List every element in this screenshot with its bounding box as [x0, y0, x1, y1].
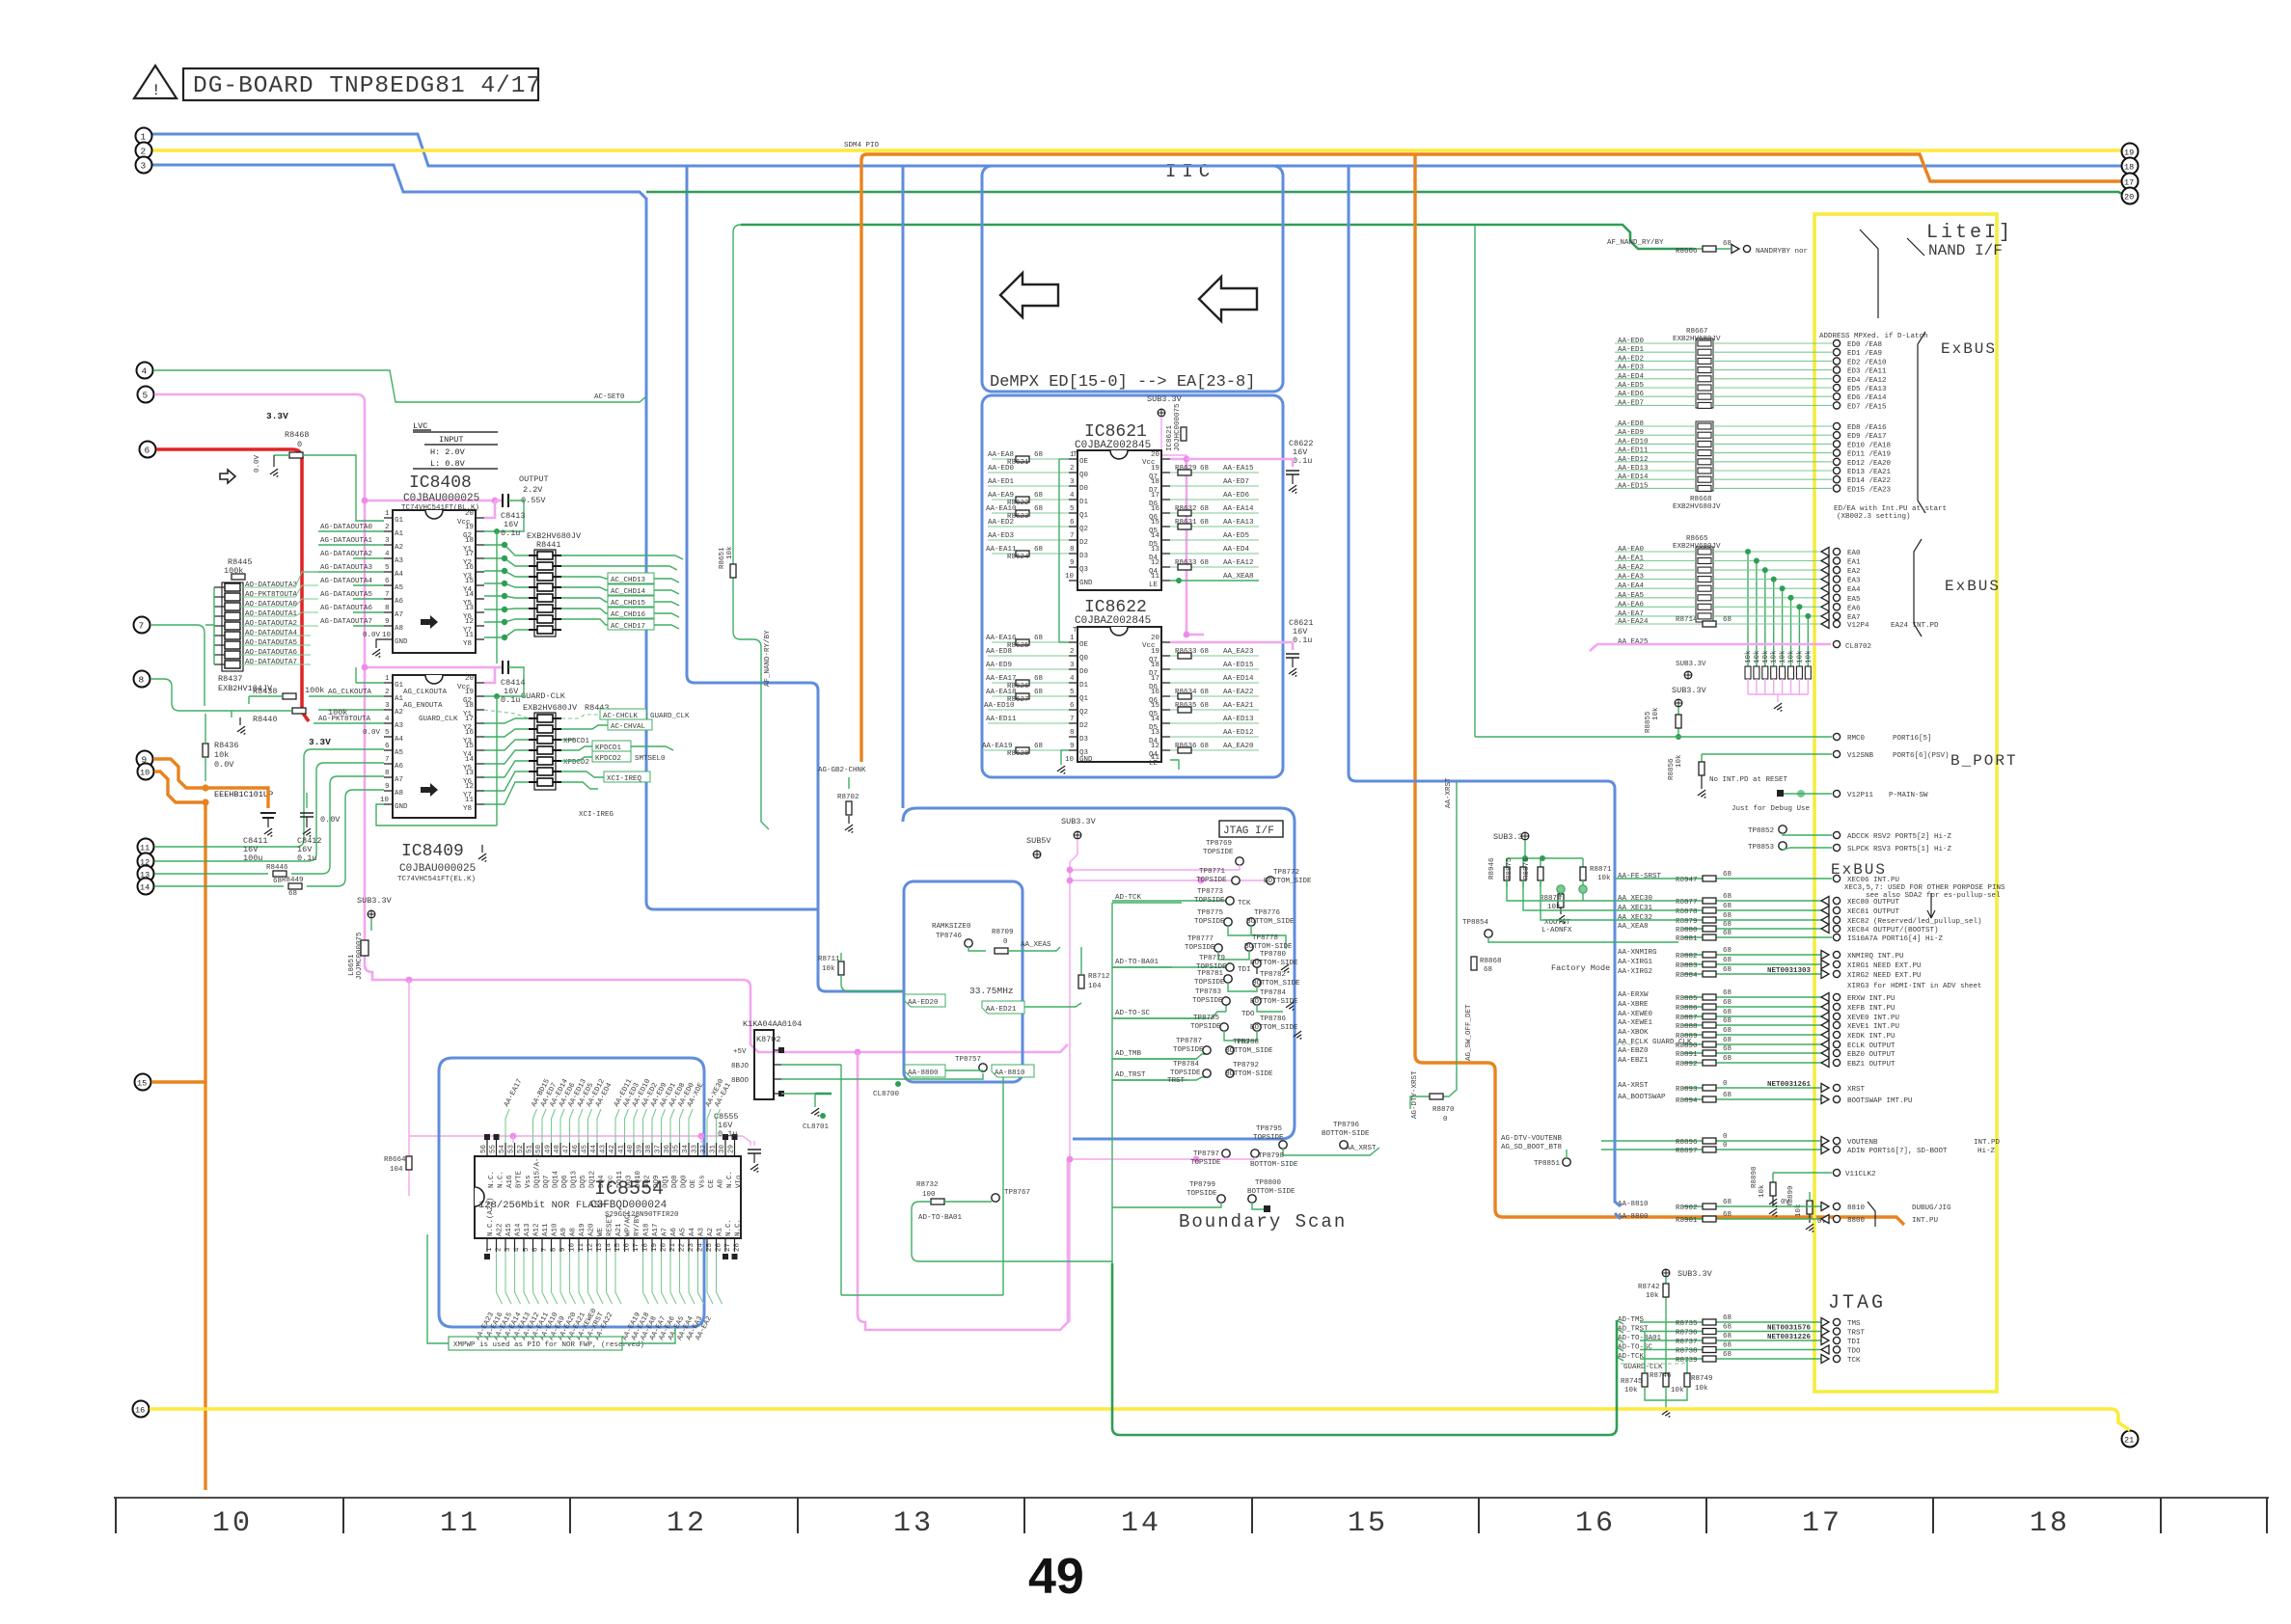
svg-text:LVC: LVC	[413, 421, 427, 431]
svg-text:TDO: TDO	[1847, 1348, 1861, 1356]
svg-text:ECLK OUTPUT: ECLK OUTPUT	[1847, 1042, 1896, 1050]
svg-text:AC-SET0: AC-SET0	[594, 393, 625, 401]
svg-text:GUARD_CLK: GUARD_CLK	[419, 716, 458, 723]
resistor R8855	[1676, 715, 1681, 728]
svg-text:R8746: R8746	[1650, 1372, 1672, 1380]
svg-text:XRST: XRST	[1847, 1086, 1866, 1094]
svg-text:AA-ED10: AA-ED10	[1618, 438, 1649, 446]
svg-text:P-MAIN-SW: P-MAIN-SW	[1889, 792, 1928, 799]
svg-text:3.3V: 3.3V	[309, 737, 331, 747]
svg-text:4: 4	[1070, 675, 1075, 683]
IC8409 body TC74VHC541FT	[393, 675, 476, 818]
IC8621 right wires/labels	[1170, 459, 1204, 635]
IC8408 body TC74VHC541FT	[393, 510, 476, 653]
svg-text:XEC81 OUTPUT: XEC81 OUTPUT	[1847, 908, 1900, 916]
svg-text:R8884: R8884	[1676, 972, 1698, 980]
svg-text:AA-EA0: AA-EA0	[1618, 546, 1645, 554]
svg-text:TOPSIDE: TOPSIDE	[1185, 944, 1215, 952]
svg-text:1: 1	[486, 1247, 494, 1252]
svg-text:DQ8: DQ8	[671, 1175, 679, 1188]
svg-text:NET0031226: NET0031226	[1767, 1334, 1812, 1341]
svg-text:14: 14	[1121, 1507, 1161, 1540]
svg-text:R8880: R8880	[1676, 927, 1698, 934]
svg-text:68: 68	[1723, 1037, 1732, 1044]
svg-text:R8440: R8440	[253, 715, 278, 724]
svg-text:AA-XIRG1: AA-XIRG1	[1618, 959, 1653, 966]
left side labels and wires	[356, 667, 384, 683]
svg-text:68: 68	[1723, 240, 1732, 248]
svg-text:16: 16	[1151, 505, 1160, 513]
bottom wires + ruler + page number	[114, 1263, 2269, 1605]
wire red (net 6)	[156, 449, 309, 721]
svg-text:68: 68	[1200, 519, 1209, 527]
svg-text:TRST: TRST	[1167, 1077, 1186, 1085]
svg-text:0.1u: 0.1u	[718, 1129, 737, 1139]
svg-text:68: 68	[1034, 451, 1043, 459]
svg-text:TP8784: TP8784	[1260, 989, 1287, 997]
note XMPWP reserved	[449, 1337, 622, 1350]
NOR flash block	[384, 1019, 983, 1350]
svg-text:AA-ED5: AA-ED5	[1618, 382, 1645, 390]
wire net 9 (orange)	[153, 759, 220, 788]
svg-text:JOJMC000075: JOJMC000075	[356, 932, 364, 980]
svg-text:4: 4	[142, 366, 148, 377]
svg-text:BOTTOM-SIDE: BOTTOM-SIDE	[1322, 1130, 1370, 1138]
svg-text:68: 68	[1723, 1351, 1732, 1359]
svg-text:6: 6	[385, 743, 390, 750]
svg-text:AQ-DATAOUTA4: AQ-DATAOUTA4	[245, 630, 298, 637]
svg-text:TP8775: TP8775	[1197, 909, 1224, 917]
svg-text:EXB2HV680JV: EXB2HV680JV	[1673, 503, 1721, 511]
svg-text:BOTTOM_SIDE: BOTTOM_SIDE	[1252, 980, 1300, 988]
svg-text:A5: A5	[395, 584, 404, 592]
svg-text:3: 3	[141, 161, 147, 172]
svg-text:AA-ED21: AA-ED21	[986, 1006, 1017, 1014]
svg-text:2.2V: 2.2V	[523, 485, 543, 495]
svg-text:N.C.: N.C.	[725, 1219, 733, 1236]
svg-text:A19: A19	[579, 1223, 586, 1236]
svg-text:AA-ED7: AA-ED7	[1618, 399, 1644, 407]
svg-text:68: 68	[1723, 1314, 1732, 1322]
svg-text:18: 18	[465, 537, 474, 545]
svg-text:AD_TRST: AD_TRST	[1115, 1071, 1146, 1079]
svg-text:AA-ED12: AA-ED12	[1618, 456, 1649, 464]
svg-text:20: 20	[465, 510, 475, 518]
svg-text:TP8787: TP8787	[1176, 1038, 1202, 1045]
svg-text:XIRG3 for HDMI-INT in ADV shee: XIRG3 for HDMI-INT in ADV sheet	[1847, 983, 1982, 990]
svg-text:1: 1	[1070, 451, 1075, 459]
svg-text:0: 0	[1723, 1142, 1728, 1150]
svg-text:ED10 /EA18: ED10 /EA18	[1847, 442, 1891, 449]
svg-text:68: 68	[1723, 1199, 1732, 1206]
svg-text:A6: A6	[395, 763, 404, 771]
pin stubs right	[476, 518, 484, 639]
svg-text:8: 8	[385, 770, 390, 777]
svg-text:XEVE1 INT.PU: XEVE1 INT.PU	[1847, 1023, 1899, 1031]
svg-text:3.3V: 3.3V	[266, 411, 288, 421]
svg-text:AA-EA11: AA-EA11	[986, 546, 1017, 554]
svg-text:Just for Debug Use: Just for Debug Use	[1732, 805, 1810, 813]
svg-text:BYTE: BYTE	[516, 1170, 524, 1188]
svg-text:3: 3	[385, 537, 390, 545]
svg-text:AF_NAND-RY/BY: AF_NAND-RY/BY	[764, 630, 772, 687]
svg-text:Q1: Q1	[1079, 695, 1089, 703]
svg-text:51: 51	[527, 1144, 534, 1153]
svg-text:RY/BY: RY/BY	[634, 1214, 641, 1236]
svg-text:TP8776: TP8776	[1254, 909, 1281, 917]
svg-text:TP8853: TP8853	[1748, 844, 1775, 852]
svg-text:AA-ED6: AA-ED6	[1618, 391, 1645, 398]
svg-text:AA_XEAS: AA_XEAS	[1021, 941, 1051, 949]
svg-text:16: 16	[1151, 689, 1160, 696]
svg-text:35: 35	[673, 1144, 681, 1153]
svg-text:R8899: R8899	[1787, 1185, 1795, 1207]
svg-text:AA-ED11: AA-ED11	[986, 716, 1017, 723]
svg-text:AG_SD_BOOT_BT8: AG_SD_BOOT_BT8	[1501, 1144, 1562, 1151]
svg-text:10k: 10k	[1597, 875, 1611, 882]
svg-text:A8: A8	[395, 625, 403, 633]
svg-text:TP8788: TP8788	[1233, 1039, 1259, 1046]
svg-text:AA-ED7: AA-ED7	[1223, 478, 1249, 486]
svg-text:AG-DATAOUTA2: AG-DATAOUTA2	[320, 551, 372, 558]
svg-text:IC8621: IC8621	[1084, 422, 1147, 442]
svg-text:AD-TO-SC: AD-TO-SC	[1115, 1010, 1151, 1017]
svg-text:TP8773: TP8773	[1197, 888, 1224, 896]
svg-text:EA5: EA5	[1847, 596, 1861, 604]
svg-text:11: 11	[465, 797, 475, 804]
svg-text:R8742: R8742	[1638, 1284, 1660, 1291]
svg-text:C0JBAU000025: C0JBAU000025	[399, 863, 476, 875]
green TCK bus	[1112, 903, 1204, 1263]
svg-text:R8712: R8712	[1088, 973, 1110, 981]
svg-text:A6: A6	[670, 1227, 678, 1236]
svg-text:A4: A4	[395, 736, 404, 744]
svg-text:Vss: Vss	[525, 1175, 532, 1188]
resistor R8436	[203, 744, 208, 757]
svg-text:9: 9	[1070, 559, 1075, 567]
svg-text:AA-ED3: AA-ED3	[1618, 365, 1645, 372]
svg-text:R8888: R8888	[1676, 1023, 1698, 1031]
svg-text:7: 7	[385, 756, 390, 764]
svg-text:BOTTOM-SIDE: BOTTOM-SIDE	[1250, 960, 1298, 967]
svg-text:54: 54	[499, 1144, 506, 1153]
svg-text:XEC80 OUTPUT: XEC80 OUTPUT	[1847, 899, 1900, 907]
svg-text:22: 22	[679, 1243, 687, 1252]
svg-text:TP8800: TP8800	[1255, 1179, 1282, 1187]
svg-text:68: 68	[1034, 689, 1043, 696]
svg-text:17: 17	[465, 551, 474, 558]
svg-text:EA0: EA0	[1847, 550, 1861, 557]
svg-text:53: 53	[508, 1144, 516, 1153]
svg-text:0.0V: 0.0V	[363, 632, 381, 639]
arrow inside	[421, 615, 438, 629]
svg-text:11: 11	[1151, 573, 1160, 581]
svg-text:49: 49	[545, 1145, 553, 1153]
svg-text:A9: A9	[560, 1228, 568, 1236]
svg-text:OE: OE	[1079, 458, 1089, 466]
svg-text:15: 15	[1348, 1507, 1388, 1540]
svg-text:R8664: R8664	[384, 1156, 406, 1164]
capacitor C8414	[495, 666, 502, 669]
svg-text:128/256Mbit NOR FLASH: 128/256Mbit NOR FLASH	[478, 1200, 606, 1211]
svg-text:AG_ENOUTA: AG_ENOUTA	[403, 702, 443, 710]
svg-text:Q0: Q0	[1079, 655, 1089, 663]
svg-text:R8668: R8668	[1690, 496, 1712, 503]
svg-text:GUARD-CLK: GUARD-CLK	[521, 691, 566, 701]
svg-text:AA-ERXW: AA-ERXW	[1618, 991, 1649, 999]
svg-text:AA-ED13: AA-ED13	[1618, 465, 1649, 473]
svg-text:Vss: Vss	[699, 1175, 707, 1188]
svg-text:R8890: R8890	[1676, 1042, 1698, 1050]
svg-text:TOPSIDE: TOPSIDE	[1173, 1046, 1204, 1054]
svg-text:27: 27	[724, 1243, 732, 1252]
svg-text:11: 11	[465, 632, 475, 639]
wire net 7	[150, 625, 205, 706]
svg-text:A2: A2	[395, 709, 403, 717]
LVC table	[413, 430, 498, 469]
svg-text:R8667: R8667	[1686, 328, 1708, 336]
wire net 1 (blue bus)	[152, 134, 2122, 166]
svg-text:TOPSIDE: TOPSIDE	[1194, 918, 1225, 926]
B_PORT section	[1475, 686, 2018, 853]
svg-text:NET0031576: NET0031576	[1767, 1325, 1812, 1333]
svg-text:15: 15	[465, 578, 475, 585]
svg-text:R8739: R8739	[1676, 1357, 1698, 1365]
svg-text:17: 17	[465, 716, 474, 723]
svg-text:XIRG2 NEED EXT.PU: XIRG2 NEED EXT.PU	[1847, 972, 1922, 980]
svg-text:68: 68	[1723, 1092, 1732, 1099]
wire net 10 (orange)	[154, 771, 205, 1490]
svg-text:15: 15	[1151, 519, 1160, 527]
svg-text:DQ12: DQ12	[589, 1171, 597, 1188]
svg-text:A8: A8	[395, 790, 403, 798]
svg-text:TP8783: TP8783	[1195, 988, 1222, 996]
gnd pin10	[376, 804, 497, 826]
svg-text:R8883: R8883	[1676, 962, 1698, 970]
svg-text:12: 12	[465, 783, 474, 791]
svg-text:68: 68	[1723, 1055, 1732, 1063]
svg-text:DG-BOARD TNP8EDG81 4/17: DG-BOARD TNP8EDG81 4/17	[193, 73, 541, 99]
svg-text:AA-ED15: AA-ED15	[1223, 662, 1254, 669]
svg-text:Q2: Q2	[1079, 709, 1088, 717]
svg-text:2: 2	[1070, 648, 1075, 656]
svg-text:DQ0: DQ0	[681, 1175, 689, 1188]
svg-text:R8856: R8856	[1668, 758, 1676, 780]
svg-text:68: 68	[1723, 999, 1732, 1007]
svg-text:1: 1	[141, 132, 147, 143]
svg-text:Q0: Q0	[1079, 472, 1089, 479]
svg-text:A18: A18	[643, 1223, 651, 1236]
wire AC-SET0 (net 4)	[153, 370, 646, 402]
svg-text:AA-XEWE1: AA-XEWE1	[1618, 1019, 1653, 1027]
arrow symbol right	[1199, 277, 1257, 321]
svg-text:A7: A7	[395, 611, 403, 619]
svg-text:R8886: R8886	[1676, 1005, 1698, 1013]
svg-text:ADDRESS MPXed. if D-Latch: ADDRESS MPXed. if D-Latch	[1819, 333, 1928, 340]
svg-text:SUB3.3V: SUB3.3V	[1147, 394, 1183, 404]
svg-text:10: 10	[382, 632, 392, 639]
svg-text:TP8782: TP8782	[1260, 971, 1286, 979]
svg-text:TP8779: TP8779	[1199, 955, 1225, 962]
svg-text:DQ13: DQ13	[571, 1170, 579, 1188]
svg-text:AA-XIRG2: AA-XIRG2	[1618, 968, 1652, 976]
svg-text:68: 68	[1723, 871, 1732, 879]
svg-text:OUTPUT: OUTPUT	[519, 474, 549, 484]
svg-text:EA1: EA1	[1847, 559, 1861, 567]
svg-text:VIo: VIo	[736, 1175, 744, 1188]
svg-text:R8436: R8436	[214, 741, 239, 750]
svg-text:AA-8800: AA-8800	[1618, 1213, 1649, 1221]
svg-text:R8871: R8871	[1590, 866, 1612, 874]
svg-text:13: 13	[596, 1242, 604, 1252]
AA-8800 row	[905, 1065, 945, 1077]
wire blue branch to boundary area	[687, 165, 903, 991]
svg-text:R8870: R8870	[1432, 1106, 1455, 1114]
IC8621 left wires/labels	[988, 459, 1069, 554]
svg-text:10k: 10k	[1676, 754, 1683, 768]
svg-text:SUB3.3V: SUB3.3V	[1677, 1269, 1713, 1279]
svg-text:AG-DATAOUTA0: AG-DATAOUTA0	[320, 524, 373, 531]
svg-text:9: 9	[1070, 743, 1075, 750]
svg-text:CE: CE	[708, 1178, 716, 1188]
svg-text:25: 25	[706, 1242, 714, 1252]
svg-text:6: 6	[145, 446, 150, 456]
svg-text:R8882: R8882	[1676, 953, 1698, 961]
svg-text:L8651: L8651	[348, 954, 356, 976]
svg-text:RMC0: RMC0	[1847, 735, 1866, 743]
wire AF_NAND_RY/BY (green)	[741, 225, 1694, 249]
svg-text:10: 10	[1065, 756, 1075, 764]
svg-text:20: 20	[661, 1242, 668, 1252]
svg-text:12: 12	[1151, 559, 1159, 567]
svg-text:6: 6	[385, 578, 390, 585]
svg-text:R8437: R8437	[218, 674, 243, 684]
svg-text:D0: D0	[1079, 485, 1089, 493]
svg-text:37: 37	[655, 1145, 663, 1153]
svg-text:V12SNB: V12SNB	[1847, 752, 1874, 760]
wire green bottom	[1112, 1263, 1617, 1435]
svg-text:ED3 /EA11: ED3 /EA11	[1847, 368, 1887, 376]
svg-text:ADCCK RSV2 PORT5[2] Hi-Z: ADCCK RSV2 PORT5[2] Hi-Z	[1847, 833, 1952, 841]
svg-text:BOTTOM_SIDE: BOTTOM_SIDE	[1246, 918, 1295, 926]
svg-text:68: 68	[288, 890, 297, 898]
resistor R8868	[1471, 957, 1477, 970]
svg-text:GUARD-CLK: GUARD-CLK	[1623, 1364, 1663, 1371]
svg-text:68: 68	[1723, 1045, 1732, 1053]
svg-text:R8896: R8896	[1676, 1139, 1698, 1147]
svg-text:DQ7: DQ7	[543, 1175, 551, 1188]
svg-text:IC8622: IC8622	[1084, 598, 1147, 617]
svg-text:SUB5V: SUB5V	[1026, 836, 1051, 846]
big blue rounded box	[903, 808, 1295, 1139]
svg-text:IIC: IIC	[1165, 161, 1215, 182]
svg-text:16: 16	[465, 564, 475, 572]
svg-text:DQ4: DQ4	[598, 1175, 606, 1188]
wire yellow bottom (net 16 to 21)	[150, 1409, 2130, 1430]
svg-text:68: 68	[1723, 616, 1732, 624]
svg-text:AQ-DATAOUTA2: AQ-DATAOUTA2	[245, 620, 297, 628]
wire net 20 (green bus)	[646, 192, 2126, 196]
svg-text:19: 19	[465, 689, 474, 696]
title box	[183, 68, 538, 100]
sheet link connectors 1-16 (left)	[133, 128, 156, 1418]
svg-text:10: 10	[1065, 573, 1075, 581]
title block DG-BOARD TNP8EDG81 4/17	[134, 66, 541, 100]
sheet link connectors 17-21 (right)	[2122, 144, 2139, 1448]
svg-text:AQ-DATAOUTA1: AQ-DATAOUTA1	[245, 610, 298, 618]
svg-text:68: 68	[1200, 505, 1209, 513]
svg-text:A7: A7	[395, 776, 403, 784]
svg-text:9: 9	[385, 618, 390, 626]
svg-text:15: 15	[137, 1079, 147, 1089]
svg-text:DQ11: DQ11	[616, 1170, 624, 1188]
svg-text:AA-ED1: AA-ED1	[988, 478, 1015, 486]
svg-text:R8736: R8736	[1676, 1330, 1698, 1338]
svg-text:14: 14	[1151, 532, 1160, 540]
svg-text:A20: A20	[588, 1223, 596, 1236]
svg-text:0.1u: 0.1u	[1293, 636, 1312, 645]
svg-text:AA_XEC32: AA_XEC32	[1618, 914, 1652, 922]
svg-text:TP8851: TP8851	[1534, 1160, 1561, 1168]
svg-text:AA-EBZ0: AA-EBZ0	[1618, 1047, 1649, 1055]
svg-text:DeMPX ED[15-0] --> EA[23-8]: DeMPX ED[15-0] --> EA[23-8]	[990, 373, 1255, 392]
svg-text:AA-ED0: AA-ED0	[1618, 338, 1645, 345]
svg-text:AA-EBZ1: AA-EBZ1	[1618, 1057, 1649, 1065]
svg-text:TP8854: TP8854	[1462, 919, 1489, 927]
GND below IC8622	[1061, 750, 1069, 765]
svg-text:ExBUS: ExBUS	[1941, 340, 1997, 358]
svg-text:+5V: +5V	[733, 1048, 747, 1056]
svg-text:Vcc: Vcc	[608, 1175, 615, 1188]
svg-text:10k: 10k	[1624, 1387, 1638, 1394]
svg-text:XEC82 (Reserved/led_pullup_sel: XEC82 (Reserved/led_pullup_sel)	[1847, 918, 1982, 926]
svg-text:14: 14	[1151, 716, 1160, 723]
svg-text:ADIN PORT16[7], SD-BOOT: ADIN PORT16[7], SD-BOOT	[1847, 1148, 1948, 1155]
svg-text:16: 16	[465, 729, 475, 737]
inductor L8651	[361, 940, 368, 956]
svg-text:68: 68	[1034, 635, 1043, 642]
svg-text:TCK: TCK	[1238, 900, 1251, 907]
svg-text:TP8799: TP8799	[1189, 1181, 1215, 1189]
svg-text:KPDCD2: KPDCD2	[595, 755, 621, 763]
svg-text:XEC06 INT.PU: XEC06 INT.PU	[1847, 877, 1899, 884]
svg-text:10: 10	[212, 1507, 253, 1540]
svg-text:SMTSEL0: SMTSEL0	[635, 755, 666, 763]
svg-text:2: 2	[385, 689, 390, 696]
svg-text:R8894: R8894	[1676, 1097, 1698, 1105]
svg-text:S29GL128N90TFIR20: S29GL128N90TFIR20	[605, 1211, 679, 1219]
svg-text:AA-EA8: AA-EA8	[988, 451, 1014, 459]
svg-text:19: 19	[1151, 648, 1159, 656]
svg-text:10k: 10k	[1788, 650, 1796, 663]
svg-text:13: 13	[893, 1507, 934, 1540]
svg-text:3: 3	[1070, 478, 1075, 486]
svg-text:A8: A8	[570, 1228, 578, 1236]
svg-text:NET0031261: NET0031261	[1767, 1081, 1812, 1089]
svg-text:R8891: R8891	[1676, 1051, 1698, 1059]
svg-text:100u: 100u	[243, 853, 262, 863]
svg-text:AA-EA17: AA-EA17	[986, 675, 1017, 683]
svg-text:104: 104	[1088, 983, 1102, 990]
svg-text:DQ14: DQ14	[553, 1170, 560, 1188]
svg-text:IC8409: IC8409	[401, 842, 464, 861]
svg-text:46: 46	[572, 1144, 580, 1153]
inner routing box	[904, 881, 1023, 1082]
svg-text:LiteI]: LiteI]	[1926, 222, 2013, 244]
wire net 2 (yellow bus)	[152, 149, 2122, 152]
svg-text:AC_CHD16: AC_CHD16	[611, 611, 646, 619]
svg-text:R8665: R8665	[1686, 535, 1708, 543]
